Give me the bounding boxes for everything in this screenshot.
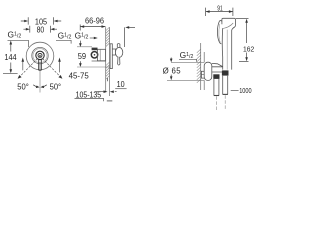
hose centreline continuation: [215, 96, 217, 111]
dimension 144: [10, 42, 12, 72]
svg-text:50°: 50°: [50, 83, 62, 92]
escutcheon inner ring: [32, 47, 48, 63]
svg-text:Ø 65: Ø 65: [163, 67, 182, 76]
G1/2 middle leader arrow to valve: [90, 37, 96, 39]
G1/2 left leader underline: [8, 40, 29, 47]
dimension 10 line with arrows: [95, 91, 117, 93]
svg-text:G1/2: G1/2: [58, 30, 72, 40]
hose nut at spray: [222, 70, 229, 75]
spray body inner line: [226, 30, 228, 70]
valve inlet union circle: [91, 52, 97, 58]
svg-text:G1/2: G1/2: [180, 50, 194, 60]
leader arrow to right inlet: [59, 62, 61, 73]
dimension 59 lower arrow: [79, 61, 81, 64]
outlet centre extension line: [77, 66, 112, 68]
dimension 59 upper arrow: [79, 41, 81, 45]
arrowhead left axis: [18, 75, 22, 79]
svg-text:G1/2: G1/2: [75, 30, 89, 40]
dimension 162: [236, 18, 249, 20]
wall hatching right view: [197, 49, 201, 83]
lower tube centreline continuation: [224, 95, 226, 109]
lower tube bottom edge: [223, 93, 228, 95]
handle lever tail: [118, 57, 120, 65]
angle arc arrow left: [33, 85, 38, 87]
handle top nub: [117, 44, 120, 48]
svg-text:91: 91: [217, 5, 222, 12]
holder arm top slant: [212, 63, 223, 66]
svg-text:G1/2: G1/2: [8, 30, 22, 40]
union nipple in wall: [201, 71, 208, 78]
wall hatching upper: [106, 27, 110, 46]
vertical centreline below: [39, 62, 41, 93]
escutcheon outer circle: [26, 42, 54, 70]
handle hub circles: [36, 51, 44, 59]
spray head outline: [222, 18, 236, 69]
trim plate edge-on: [110, 44, 112, 69]
label 1000 leader: [231, 90, 239, 92]
angle arc arrow right: [42, 85, 47, 87]
dimension 105: [21, 17, 61, 24]
bottom reference line (144 lower extension): [3, 73, 18, 75]
svg-text:162: 162: [243, 44, 254, 53]
valve inlet union bar: [92, 48, 98, 51]
valve bottom line: [92, 60, 106, 62]
svg-text:144: 144: [4, 53, 17, 62]
spray handle lower tube: [223, 76, 228, 94]
svg-text:1000: 1000: [239, 88, 251, 95]
dashed inlet axis left 50deg: [20, 56, 40, 77]
dimension 10 extension ticks: [106, 78, 108, 81]
hose bottom edge: [214, 95, 219, 97]
svg-text:66-96: 66-96: [85, 17, 104, 26]
holder arm lines: [212, 67, 223, 72]
wall line right view: [200, 43, 202, 90]
trigger clip: [217, 21, 222, 44]
handle boss: [112, 49, 115, 55]
spray body left edge: [221, 28, 223, 69]
svg-text:10: 10: [117, 80, 126, 89]
svg-text:59: 59: [78, 52, 86, 61]
handle-tip extension line: [124, 27, 126, 47]
handle lever body: [115, 47, 122, 57]
svg-text:45-75: 45-75: [69, 71, 90, 80]
dimension 91: [206, 8, 233, 16]
wall hatching lower: [106, 62, 110, 79]
hose from flange: [214, 79, 219, 95]
svg-text:80: 80: [37, 25, 45, 34]
hose nut at flange: [213, 74, 219, 79]
inlet centre extension line: [77, 46, 92, 48]
wall rough line: [105, 27, 107, 92]
dashed inlet axis right 50deg: [40, 56, 60, 77]
svg-text:50°: 50°: [17, 83, 29, 92]
extension line inlet face: [79, 25, 81, 31]
G1/2 right leader underline: [56, 40, 71, 43]
arrowhead right axis: [58, 75, 62, 79]
wall flange (escutcheon edge-on): [204, 62, 212, 80]
dimension 80: [23, 26, 57, 33]
arrow to handle tip extension: [128, 26, 135, 28]
dimension 66-96: [80, 26, 105, 28]
leader arrow to left inlet: [22, 62, 24, 71]
valve housing: [98, 49, 106, 61]
spray head inner curve: [223, 23, 233, 29]
lever stem pointing down: [39, 59, 42, 70]
wall finished line: [109, 27, 111, 96]
dimension diameter 65: [170, 58, 172, 60]
